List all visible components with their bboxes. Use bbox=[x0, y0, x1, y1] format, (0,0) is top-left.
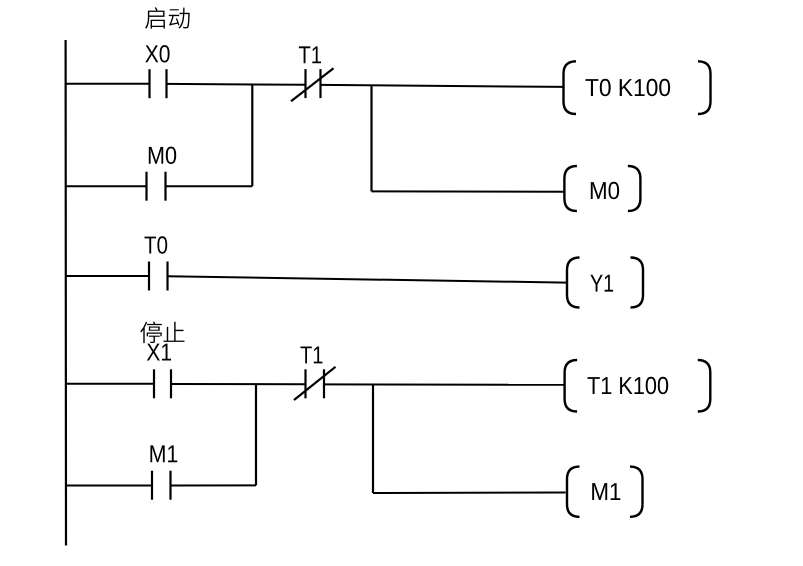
branch wire down to M0 contact row bbox=[251, 84, 253, 186]
value M1 bbox=[592, 483, 620, 500]
branch wire down to coil M0 row bbox=[370, 85, 372, 191]
wire to coil M0 bbox=[372, 190, 565, 192]
contact M1 (NO) bbox=[152, 471, 171, 500]
contact M0 (NO) bbox=[147, 172, 166, 201]
value T1 K100 bbox=[588, 377, 669, 394]
branch wire down to M1 contact row bbox=[255, 384, 257, 486]
contact T0 (NO) bbox=[149, 262, 168, 291]
coil M0 bbox=[564, 166, 640, 211]
label 停止 (stop) bbox=[140, 322, 184, 344]
label 启动 (start) bbox=[145, 7, 190, 29]
wire M1 to branch bbox=[171, 484, 257, 486]
value M0 bbox=[591, 182, 619, 199]
label M1 bbox=[150, 445, 177, 462]
left power rail bbox=[64, 40, 67, 546]
contact T1 rung 4 (NC) bbox=[294, 367, 336, 400]
wire rail to M1 bbox=[66, 485, 152, 487]
wire M0 to branch bbox=[166, 185, 253, 187]
label X1 bbox=[147, 344, 171, 361]
coil M1 bbox=[567, 467, 643, 517]
wire T1 to coil T0 K100 bbox=[321, 85, 565, 87]
wire rail to T0 bbox=[66, 275, 149, 277]
label T1 (rung 4) bbox=[301, 347, 323, 364]
coil T1 K100 bbox=[565, 360, 711, 412]
wire rail to X0 bbox=[66, 83, 150, 85]
contact T1 (NC) bbox=[291, 68, 334, 101]
coil Y1 bbox=[567, 258, 643, 308]
wire X0 to T1 bbox=[167, 83, 306, 86]
wire to coil M1 bbox=[373, 492, 566, 495]
label T0 bbox=[145, 236, 168, 253]
branch wire down to coil M1 row bbox=[372, 384, 374, 493]
wire T0 to coil Y1 bbox=[168, 276, 567, 282]
wire X1 to T1 bbox=[171, 383, 306, 385]
coil T0 K100 bbox=[564, 61, 711, 114]
label X0 bbox=[145, 45, 169, 62]
label T1 bbox=[299, 46, 321, 63]
label M0 bbox=[149, 147, 176, 164]
wire T1 to coil T1 K100 bbox=[324, 383, 565, 385]
wire rail to X1 bbox=[66, 383, 154, 385]
value T0 K100 bbox=[586, 79, 671, 96]
contact X1 (NO) bbox=[154, 369, 171, 398]
value Y1 bbox=[590, 275, 613, 292]
wire rail to M0 bbox=[66, 185, 147, 187]
contact X0 (NO) bbox=[150, 69, 167, 98]
